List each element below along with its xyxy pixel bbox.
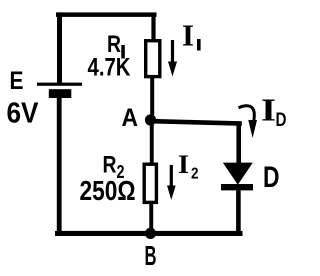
wire node A to right branch bbox=[153, 119, 242, 126]
wire right vertical upper bbox=[236, 121, 241, 164]
wire left vertical lower bbox=[57, 98, 62, 237]
wire left vertical upper bbox=[57, 12, 62, 85]
battery E positive plate bbox=[37, 83, 82, 86]
svg-text:A: A bbox=[122, 104, 139, 132]
node B junction dot bbox=[145, 228, 156, 239]
label I1 bbox=[182, 18, 201, 53]
svg-text:2: 2 bbox=[191, 166, 199, 183]
diode D anode triangle bbox=[223, 163, 253, 185]
wire right vertical lower bbox=[236, 190, 241, 236]
wire top horizontal bbox=[56, 12, 157, 17]
wire bottom horizontal bbox=[55, 231, 243, 236]
wire top-right corner vertical bbox=[151, 13, 155, 41]
current arrow ID (curved) bbox=[239, 106, 258, 138]
label R2 bbox=[103, 152, 125, 183]
svg-text:I: I bbox=[178, 150, 189, 179]
svg-text:B: B bbox=[145, 240, 157, 271]
label I2 bbox=[178, 150, 199, 183]
svg-text:6V: 6V bbox=[7, 98, 40, 130]
svg-text:4.7K: 4.7K bbox=[88, 54, 131, 82]
resistor R2 bbox=[144, 164, 156, 202]
battery E negative plate bbox=[49, 89, 72, 98]
node A junction dot bbox=[145, 114, 156, 125]
svg-text:I: I bbox=[261, 92, 276, 128]
svg-text:D: D bbox=[263, 161, 280, 194]
svg-text:D: D bbox=[276, 109, 287, 131]
label ID bbox=[261, 92, 287, 131]
wire R2 to node B bbox=[149, 202, 153, 232]
svg-text:E: E bbox=[10, 67, 24, 95]
wire R1 to node A bbox=[150, 78, 154, 116]
resistor R1 bbox=[146, 41, 160, 77]
current arrow I2 bbox=[167, 165, 176, 200]
svg-text:250Ω: 250Ω bbox=[80, 175, 136, 206]
svg-text:I: I bbox=[182, 18, 194, 53]
current arrow I1 bbox=[168, 40, 177, 77]
diode D cathode bar bbox=[221, 184, 253, 190]
wire node A to R2 bbox=[150, 124, 154, 165]
